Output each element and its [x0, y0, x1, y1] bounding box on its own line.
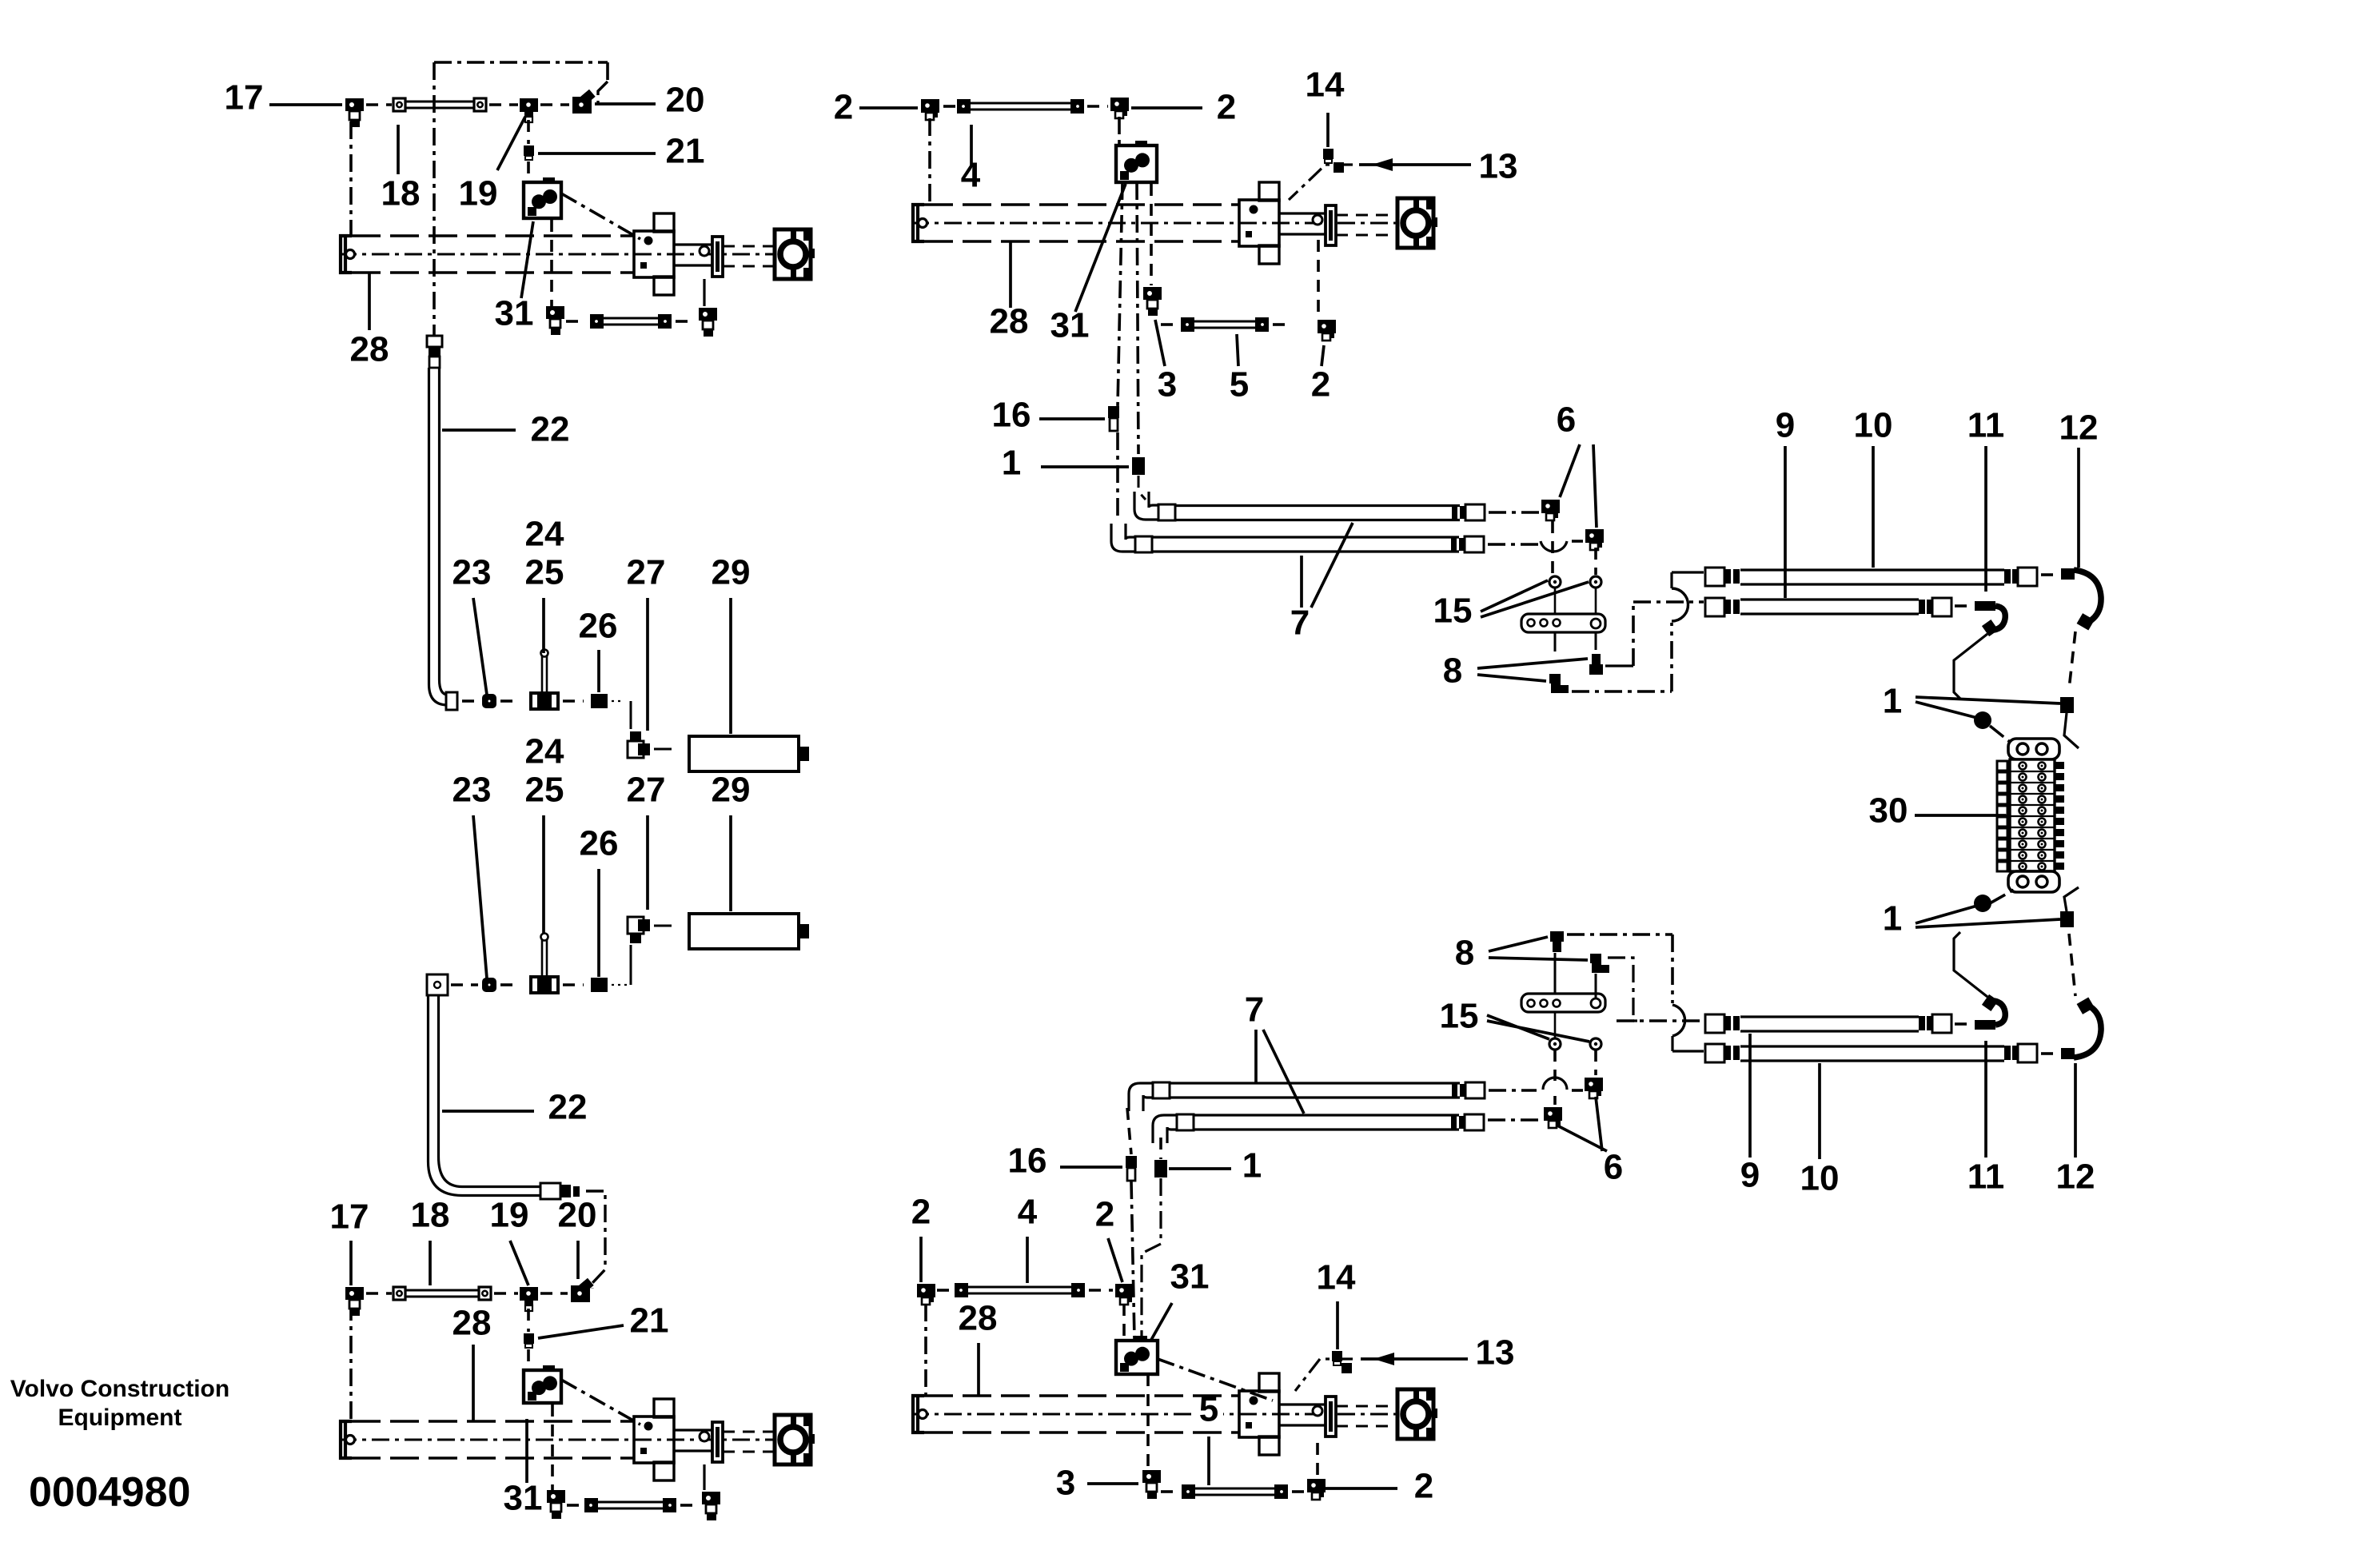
svg-text:5: 5	[1199, 1390, 1218, 1429]
svg-text:29: 29	[712, 553, 751, 592]
svg-text:19: 19	[490, 1196, 529, 1235]
svg-text:9: 9	[1740, 1156, 1760, 1195]
svg-text:28: 28	[990, 302, 1029, 341]
svg-text:11: 11	[1967, 1158, 2005, 1197]
svg-text:18: 18	[411, 1196, 450, 1235]
svg-text:1: 1	[1002, 444, 1021, 483]
svg-text:25: 25	[525, 553, 564, 592]
svg-text:13: 13	[1476, 1333, 1515, 1373]
svg-text:28: 28	[350, 330, 389, 369]
svg-text:1: 1	[1883, 899, 1902, 938]
svg-text:16: 16	[992, 396, 1031, 435]
svg-text:2: 2	[1414, 1467, 1433, 1506]
svg-text:2: 2	[1217, 88, 1236, 127]
svg-text:10: 10	[1854, 406, 1893, 445]
svg-text:8: 8	[1455, 934, 1474, 973]
svg-text:26: 26	[579, 607, 618, 646]
svg-text:26: 26	[580, 824, 619, 863]
svg-text:2: 2	[1311, 365, 1330, 404]
svg-text:2: 2	[834, 88, 853, 127]
svg-text:Volvo Construction: Volvo Construction	[10, 1376, 229, 1402]
svg-text:29: 29	[712, 771, 751, 810]
svg-text:14: 14	[1317, 1258, 1356, 1297]
svg-text:5: 5	[1230, 365, 1249, 404]
svg-text:17: 17	[330, 1197, 369, 1237]
svg-text:18: 18	[381, 174, 421, 213]
svg-text:11: 11	[1967, 406, 2005, 445]
svg-text:27: 27	[627, 553, 666, 592]
svg-text:23: 23	[452, 771, 492, 810]
svg-text:20: 20	[666, 81, 705, 120]
svg-text:14: 14	[1306, 66, 1345, 105]
svg-text:12: 12	[2059, 408, 2099, 448]
svg-text:3: 3	[1158, 365, 1177, 404]
svg-text:12: 12	[2056, 1158, 2095, 1197]
svg-text:25: 25	[525, 771, 564, 810]
svg-text:10: 10	[1800, 1159, 1840, 1198]
svg-text:28: 28	[959, 1299, 998, 1338]
svg-text:22: 22	[548, 1088, 588, 1127]
svg-text:2: 2	[911, 1193, 931, 1232]
svg-text:9: 9	[1776, 406, 1795, 445]
svg-text:19: 19	[459, 174, 498, 213]
svg-text:Equipment: Equipment	[58, 1405, 182, 1431]
svg-text:30: 30	[1869, 791, 1908, 831]
svg-text:24: 24	[525, 515, 564, 554]
svg-text:21: 21	[666, 132, 705, 171]
svg-text:1: 1	[1242, 1146, 1262, 1185]
svg-text:7: 7	[1290, 604, 1310, 643]
svg-text:21: 21	[630, 1301, 669, 1341]
svg-text:24: 24	[525, 732, 564, 771]
svg-text:3: 3	[1056, 1464, 1075, 1503]
svg-text:27: 27	[627, 771, 666, 810]
svg-text:23: 23	[452, 553, 492, 592]
svg-text:22: 22	[531, 410, 570, 449]
svg-text:7: 7	[1245, 990, 1264, 1030]
svg-text:0004980: 0004980	[29, 1469, 190, 1516]
svg-text:31: 31	[504, 1479, 543, 1518]
svg-text:8: 8	[1443, 651, 1462, 691]
svg-text:6: 6	[1604, 1148, 1623, 1187]
svg-text:17: 17	[225, 78, 264, 118]
svg-text:2: 2	[1095, 1195, 1114, 1234]
svg-text:1: 1	[1883, 682, 1902, 721]
svg-text:15: 15	[1440, 997, 1479, 1036]
svg-text:13: 13	[1479, 147, 1518, 186]
svg-text:16: 16	[1008, 1142, 1047, 1181]
svg-text:4: 4	[1018, 1193, 1038, 1232]
svg-text:20: 20	[558, 1196, 597, 1235]
svg-text:15: 15	[1433, 592, 1473, 631]
svg-text:6: 6	[1557, 400, 1576, 440]
svg-text:31: 31	[1170, 1257, 1210, 1297]
svg-text:31: 31	[1050, 306, 1090, 345]
svg-text:28: 28	[452, 1304, 492, 1343]
svg-text:31: 31	[495, 294, 534, 333]
